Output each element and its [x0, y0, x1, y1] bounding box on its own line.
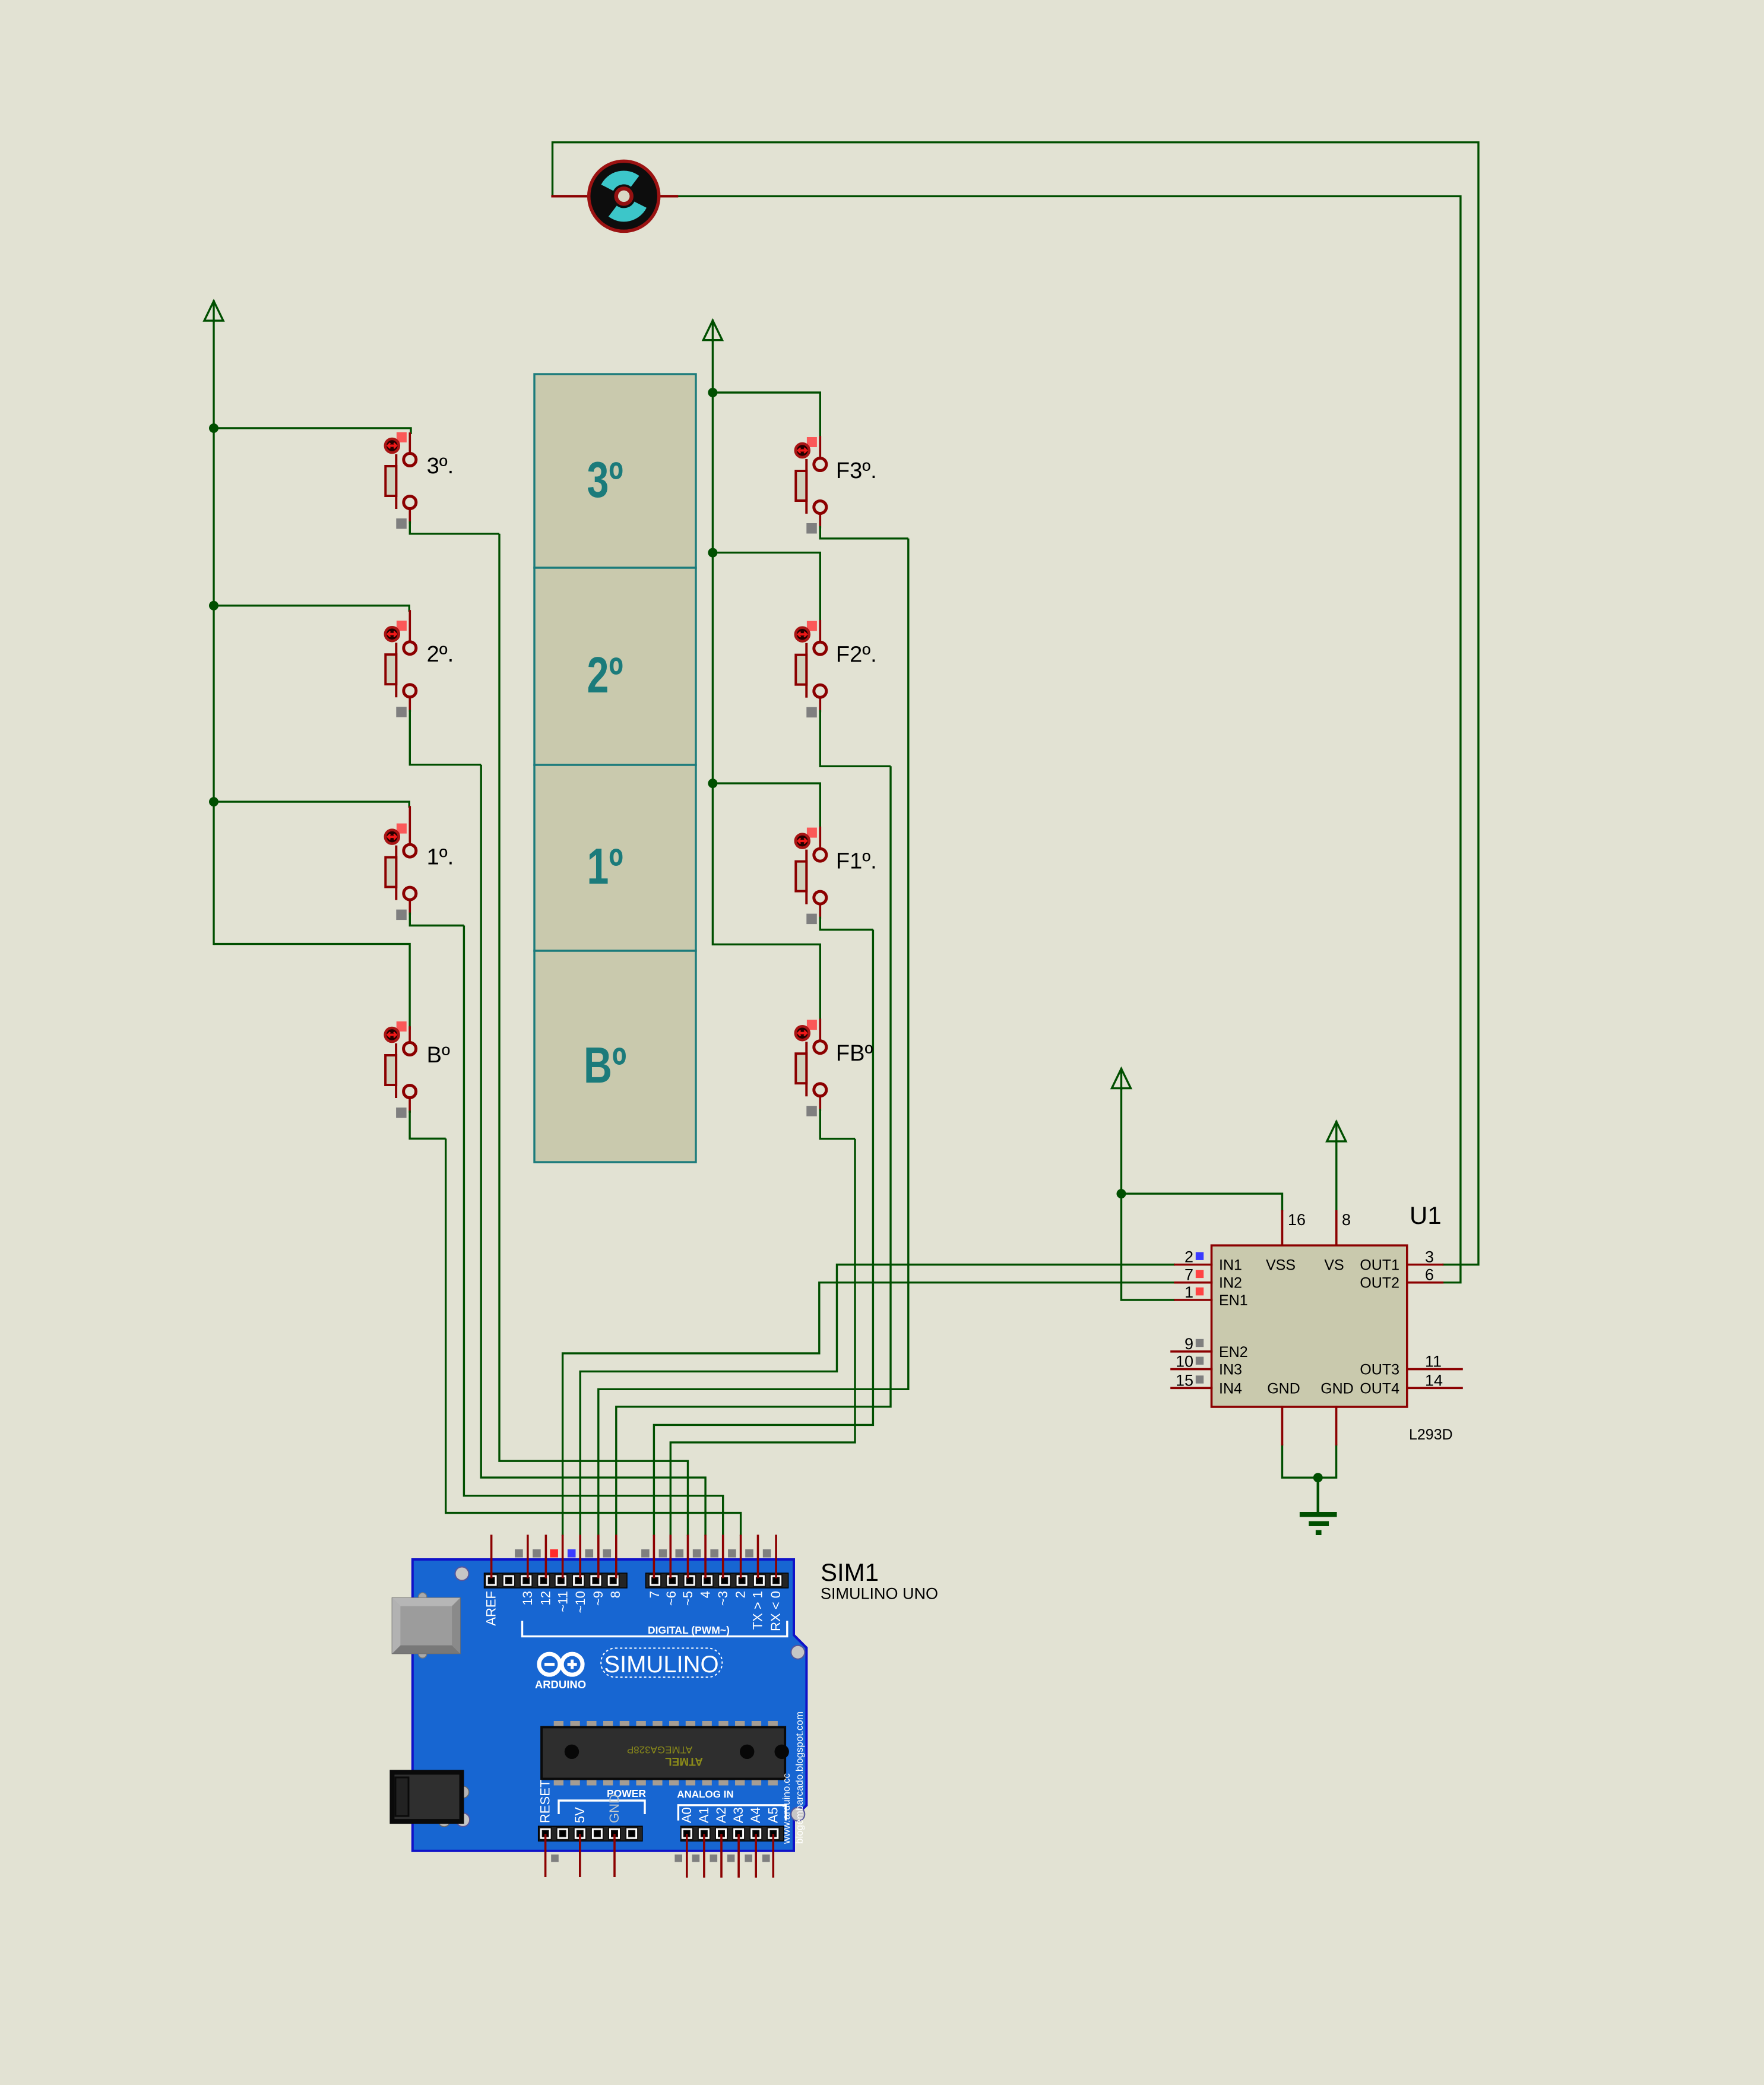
svg-text:~10: ~10: [573, 1591, 588, 1613]
svg-text:11: 11: [1425, 1353, 1442, 1371]
push button 2o: [385, 621, 454, 697]
arduino pin stub: [490, 1536, 493, 1577]
wire row Bo horizontal: [214, 944, 410, 1030]
push button FBo: [796, 1020, 873, 1096]
ground symbol: [1300, 1512, 1337, 1535]
svg-text:14: 14: [1425, 1371, 1443, 1389]
pin state square: [745, 1549, 753, 1558]
wire button bottom stub: [819, 697, 822, 711]
chip pin VS stub: [1335, 1211, 1338, 1246]
svg-text:A3: A3: [731, 1807, 746, 1823]
wire to arduino pin: [670, 1139, 855, 1536]
pin state square: [659, 1549, 667, 1558]
wire button bottom stub: [819, 513, 822, 527]
arduino pin stub: [597, 1536, 600, 1577]
arduino pin stub: [615, 1536, 617, 1577]
push button Bo: [385, 1021, 450, 1098]
arduino pin stub: [686, 1835, 688, 1877]
wire junction: [209, 797, 218, 806]
ATMEGA328P chip: [541, 1721, 789, 1786]
wire button exit: [820, 526, 908, 539]
digital header 8-13: [484, 1573, 628, 1588]
motor driver U1 L293D: [1171, 1201, 1462, 1444]
wire junction: [708, 388, 717, 397]
pin state square: [762, 1855, 770, 1862]
arduino pin stub: [775, 1536, 777, 1577]
wire button stub: [819, 437, 822, 458]
chip pin stub: [1407, 1282, 1443, 1284]
wire button exit: [820, 710, 891, 767]
svg-text:L293D: L293D: [1409, 1426, 1453, 1443]
arduino pin stub: [703, 1835, 705, 1877]
svg-text:RESET: RESET: [538, 1780, 553, 1823]
mounting hole: [791, 1646, 805, 1659]
svg-text:A2: A2: [714, 1807, 729, 1823]
arduino SIM1 SIMULINO UNO: [392, 1536, 938, 1877]
analog header: [681, 1826, 784, 1841]
wire button stub: [819, 621, 822, 643]
wire to arduino pin: [616, 766, 891, 1536]
wire button bottom stub: [819, 1096, 822, 1110]
wire button stub: [408, 434, 411, 454]
svg-text:DIGITAL (PWM~): DIGITAL (PWM~): [648, 1624, 730, 1636]
elevator shaft graphic: [534, 374, 696, 1162]
svg-text:OUT4: OUT4: [1360, 1380, 1399, 1397]
pin state square: [710, 1855, 718, 1862]
wire F row horizontal: [712, 783, 820, 828]
svg-text:IN3: IN3: [1219, 1362, 1242, 1378]
arduino logo: [535, 1654, 586, 1691]
push button F1o: [796, 828, 877, 904]
power symbol right rail: [703, 321, 722, 341]
wire OUT2 to motor: [677, 196, 1461, 1282]
svg-text:A4: A4: [748, 1807, 763, 1823]
floating pin indicator: [396, 518, 407, 529]
svg-text:EN1: EN1: [1219, 1292, 1248, 1309]
svg-text:~9: ~9: [591, 1591, 606, 1606]
svg-text:2: 2: [1185, 1248, 1193, 1266]
svg-text:7: 7: [647, 1591, 662, 1598]
svg-text:IN4: IN4: [1219, 1380, 1242, 1397]
arduino pin stub: [755, 1835, 757, 1877]
svg-text:8: 8: [608, 1591, 623, 1598]
wire button stub: [408, 1027, 411, 1043]
chip pin VSS stub: [1281, 1211, 1284, 1246]
arduino pin stub: [545, 1536, 547, 1577]
svg-text:OUT2: OUT2: [1360, 1275, 1399, 1292]
svg-text:GND: GND: [1267, 1380, 1300, 1397]
motor M1: [553, 161, 677, 231]
pin state square: [727, 1855, 735, 1862]
chip pin stub: [1175, 1264, 1212, 1266]
wire button stub: [819, 1020, 822, 1041]
wire button exit: [410, 913, 464, 926]
svg-text:6: 6: [1425, 1266, 1434, 1284]
floating pin indicator: [806, 707, 817, 718]
push button 3o: [385, 432, 454, 509]
svg-text:IN1: IN1: [1219, 1257, 1242, 1274]
arduino pin stub: [740, 1536, 742, 1577]
pin state square: [676, 1549, 684, 1558]
svg-text:VSS: VSS: [1266, 1257, 1296, 1274]
svg-text:AREF: AREF: [484, 1591, 499, 1626]
svg-text:16: 16: [1288, 1211, 1306, 1229]
pin state square: [533, 1549, 541, 1558]
arduino pin stub: [613, 1835, 616, 1876]
wire GND net: [1282, 1444, 1337, 1477]
floating pin indicator: [396, 1108, 407, 1118]
arduino pin stub: [687, 1536, 689, 1577]
svg-text:blogembarcado.blogspot.com: blogembarcado.blogspot.com: [794, 1711, 805, 1844]
svg-text:13: 13: [520, 1591, 535, 1605]
wire button exit: [820, 917, 873, 930]
floating pin indicator: [396, 707, 407, 717]
chip pin GND stubs: [1281, 1407, 1284, 1444]
arduino pin stub: [653, 1536, 655, 1577]
mounting hole: [456, 1813, 470, 1827]
svg-text:RX < 0: RX < 0: [768, 1591, 783, 1631]
svg-text:~5: ~5: [680, 1591, 695, 1606]
svg-text:Bº: Bº: [584, 1037, 626, 1094]
svg-text:~3: ~3: [715, 1591, 730, 1606]
svg-text:ARDUINO: ARDUINO: [535, 1678, 586, 1691]
svg-text:EN2: EN2: [1219, 1344, 1248, 1361]
pin state square: [515, 1549, 523, 1558]
arduino pin stub: [562, 1536, 564, 1577]
wire button exit: [410, 710, 481, 765]
svg-text:1: 1: [1185, 1283, 1193, 1301]
power jack: [392, 1772, 468, 1827]
wire to arduino pin: [598, 539, 908, 1536]
svg-text:GND: GND: [607, 1794, 622, 1823]
arduino pin stub: [722, 1536, 724, 1577]
svg-text:GND: GND: [1320, 1380, 1354, 1397]
svg-text:3º: 3º: [587, 452, 623, 508]
chip pin stub: [1175, 1299, 1212, 1301]
wire row 1o horizontal: [214, 802, 409, 808]
svg-text:8: 8: [1342, 1211, 1351, 1229]
wire net: [209, 143, 1478, 1536]
pin state square: [763, 1549, 771, 1558]
svg-text:OUT3: OUT3: [1360, 1362, 1399, 1378]
floating pin indicator: [396, 910, 407, 920]
pin state square: [550, 1549, 558, 1558]
svg-text:SIMULINO UNO: SIMULINO UNO: [821, 1585, 938, 1603]
chip pin stub: [1175, 1282, 1212, 1284]
svg-text:F1º.: F1º.: [836, 849, 877, 874]
power symbol VS pin8: [1327, 1122, 1346, 1142]
arduino pin stub: [544, 1835, 547, 1876]
svg-text:VS: VS: [1324, 1257, 1344, 1274]
wire button stub: [408, 611, 411, 642]
svg-text:2º.: 2º.: [427, 642, 454, 667]
wire to arduino pin: [481, 765, 705, 1536]
wire to arduino pin: [499, 534, 688, 1536]
svg-text:3: 3: [1425, 1248, 1434, 1266]
svg-text:12: 12: [538, 1591, 553, 1605]
power symbol EN1/VSS: [1112, 1069, 1131, 1089]
pin state square: [674, 1855, 682, 1862]
svg-text:2: 2: [733, 1591, 748, 1598]
pin state square: [568, 1549, 576, 1558]
svg-text:A1: A1: [696, 1807, 711, 1823]
chip pin stub: [1171, 1368, 1212, 1371]
chip pin stub: [1407, 1368, 1462, 1371]
arduino pin stub: [579, 1536, 581, 1577]
push button F2o: [796, 621, 877, 698]
pin state square: [641, 1549, 650, 1558]
wire left power rail: [213, 321, 214, 944]
arduino pin stub: [704, 1536, 707, 1577]
pin state square: [728, 1549, 736, 1558]
pin state square: [551, 1855, 559, 1862]
svg-text:ATMEGA328P: ATMEGA328P: [627, 1744, 692, 1755]
push button F3o: [796, 437, 877, 514]
mounting hole: [455, 1567, 469, 1581]
wire OUT1 to motor: [553, 143, 1479, 1265]
arduino pin stub: [737, 1835, 740, 1877]
svg-text:F2º.: F2º.: [836, 643, 877, 667]
wire EN1 power net: [1122, 1089, 1176, 1300]
svg-text:OUT1: OUT1: [1360, 1257, 1399, 1274]
pin state square: [692, 1855, 700, 1862]
wire button bottom stub: [819, 904, 822, 918]
arduino pin stub: [579, 1835, 581, 1876]
wire button bottom stub: [408, 508, 411, 523]
arduino pin stub: [757, 1536, 759, 1577]
chip pin stub: [1171, 1350, 1212, 1353]
wire F row horizontal: [712, 393, 820, 438]
floating pin indicator: [806, 914, 817, 925]
svg-text:4: 4: [698, 1591, 712, 1598]
wire right power rail: [712, 340, 714, 944]
wire junction: [209, 601, 218, 610]
wire VS power: [1335, 1141, 1337, 1211]
wire FB row horizontal: [712, 944, 820, 1022]
svg-text:7: 7: [1185, 1266, 1193, 1284]
SIMULINO silkscreen: [601, 1648, 722, 1677]
floating pin indicator: [806, 1106, 817, 1116]
svg-text:www.arduino.cc: www.arduino.cc: [781, 1773, 792, 1844]
mounting hole: [791, 1808, 805, 1821]
arduino pin stub: [720, 1835, 723, 1877]
wire button bottom stub: [408, 1097, 411, 1112]
digital header 0-7: [646, 1573, 788, 1588]
power header: [539, 1826, 642, 1841]
chip pin stub: [1171, 1387, 1212, 1390]
wire button exit: [410, 1110, 446, 1138]
arduino pin stub: [670, 1536, 672, 1577]
pin state square: [693, 1549, 701, 1558]
wire to arduino pin: [464, 926, 723, 1536]
svg-text:10: 10: [1176, 1353, 1193, 1371]
arduino pin stub: [772, 1835, 775, 1877]
chip pin stub: [1407, 1264, 1443, 1266]
svg-text:ATMEL: ATMEL: [665, 1755, 703, 1767]
pin state square: [745, 1855, 752, 1862]
svg-text:SIM1: SIM1: [821, 1558, 879, 1586]
svg-text:~6: ~6: [664, 1591, 679, 1606]
power symbol left rail: [204, 301, 223, 321]
wire button bottom stub: [408, 900, 411, 914]
svg-text:9: 9: [1185, 1335, 1193, 1353]
wire junction: [708, 548, 717, 558]
svg-text:IN2: IN2: [1219, 1275, 1242, 1292]
push button 1o: [385, 824, 454, 900]
svg-text:2º: 2º: [587, 647, 623, 704]
wire row 2o horizontal: [214, 606, 409, 612]
arduino pin stub: [527, 1536, 529, 1577]
wire to arduino pin: [446, 1138, 741, 1536]
svg-text:Bº: Bº: [427, 1043, 450, 1068]
svg-text:FBº: FBº: [836, 1041, 873, 1066]
svg-text:1º.: 1º.: [427, 845, 454, 870]
svg-text:15: 15: [1176, 1371, 1193, 1389]
svg-text:5V: 5V: [572, 1807, 587, 1823]
pin state square: [603, 1549, 612, 1558]
wire row 3o horizontal: [214, 428, 411, 434]
svg-text:A0: A0: [679, 1807, 694, 1823]
svg-text:TX > 1: TX > 1: [750, 1591, 765, 1630]
svg-text:1º: 1º: [587, 839, 623, 895]
wire to arduino pin: [654, 930, 873, 1536]
wire button exit: [820, 1109, 855, 1138]
wire button bottom stub: [408, 697, 411, 711]
svg-text:ANALOG IN: ANALOG IN: [677, 1789, 733, 1800]
wire IN1 to pin ~10: [580, 1265, 1175, 1536]
wire junction: [209, 423, 218, 433]
wire IN2 to pin ~11: [563, 1283, 1175, 1536]
svg-text:F3º.: F3º.: [836, 458, 877, 483]
wire junction: [708, 779, 717, 788]
wire button stub: [408, 807, 411, 845]
svg-text:U1: U1: [1410, 1201, 1442, 1229]
wire F row horizontal: [712, 553, 820, 622]
digital pwm bracket: [522, 1621, 787, 1636]
usb connector: [392, 1593, 460, 1658]
pin state square: [585, 1549, 594, 1558]
floating pin indicator: [806, 523, 817, 534]
wire button stub: [819, 828, 822, 849]
wire button exit: [410, 521, 499, 534]
svg-text:A5: A5: [765, 1807, 780, 1823]
svg-text:SIMULINO: SIMULINO: [604, 1651, 718, 1678]
svg-text:~11: ~11: [556, 1591, 571, 1612]
chip pin stub: [1407, 1387, 1462, 1390]
pin state square: [710, 1549, 718, 1558]
svg-text:3º.: 3º.: [427, 454, 454, 479]
